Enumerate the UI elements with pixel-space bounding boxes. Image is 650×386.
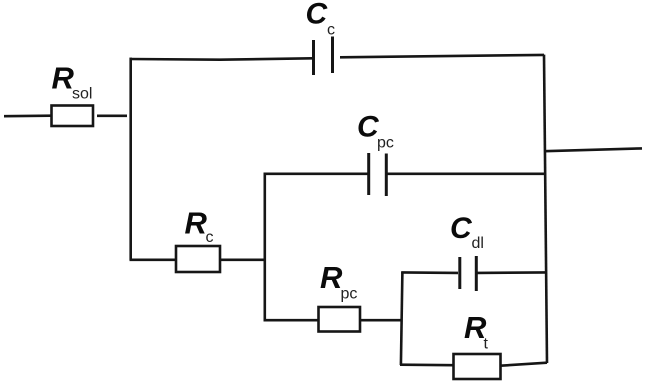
resistor Rt bbox=[454, 354, 501, 379]
wire Rpc row left bbox=[264, 319, 319, 322]
capacitor Cdl bbox=[460, 256, 477, 291]
label Cc bbox=[306, 0, 336, 38]
wire left rail vertical bbox=[129, 58, 132, 260]
label Rt bbox=[464, 310, 489, 353]
label Cdl bbox=[450, 212, 484, 252]
svg-text:sol: sol bbox=[72, 86, 92, 103]
wire Cpc row right bbox=[387, 173, 546, 176]
svg-text:C: C bbox=[306, 0, 329, 31]
wire middle rail vertical bbox=[263, 173, 266, 321]
wire input left bbox=[4, 114, 51, 117]
label Rpc bbox=[320, 260, 357, 303]
svg-text:t: t bbox=[484, 336, 489, 353]
capacitor Cpc bbox=[369, 153, 387, 196]
wire Rpc row right bbox=[360, 319, 402, 322]
resistor Rpc bbox=[319, 307, 361, 332]
capacitor Cc bbox=[314, 37, 333, 76]
resistor Rsol bbox=[52, 106, 94, 127]
wire top row left of Cc bbox=[130, 58, 313, 59]
svg-text:pc: pc bbox=[341, 286, 358, 303]
wire Rt row right bbox=[501, 363, 548, 366]
svg-text:dl: dl bbox=[472, 235, 484, 252]
wire Cpc row left bbox=[264, 173, 369, 176]
wire Rsol to left rail bbox=[97, 115, 127, 118]
wire Cdl row left bbox=[401, 271, 458, 274]
wire output right bbox=[545, 148, 643, 151]
label Rsol bbox=[52, 61, 93, 103]
svg-text:pc: pc bbox=[377, 135, 394, 152]
label Rc bbox=[185, 206, 214, 246]
wire inner rail vertical bbox=[401, 272, 403, 365]
wire Cdl row right bbox=[477, 271, 547, 274]
wire Rc row left bbox=[130, 258, 176, 261]
svg-text:c: c bbox=[327, 21, 335, 38]
svg-text:C: C bbox=[450, 212, 473, 245]
wire Rt row left bbox=[400, 363, 453, 366]
label Cpc bbox=[357, 110, 394, 151]
resistor Rc bbox=[176, 246, 220, 272]
svg-text:c: c bbox=[206, 229, 214, 246]
wire Rc row right bbox=[220, 258, 266, 261]
svg-text:R: R bbox=[185, 206, 208, 241]
wire right rail vertical bbox=[544, 55, 547, 363]
wire top row right of Cc bbox=[340, 55, 544, 57]
